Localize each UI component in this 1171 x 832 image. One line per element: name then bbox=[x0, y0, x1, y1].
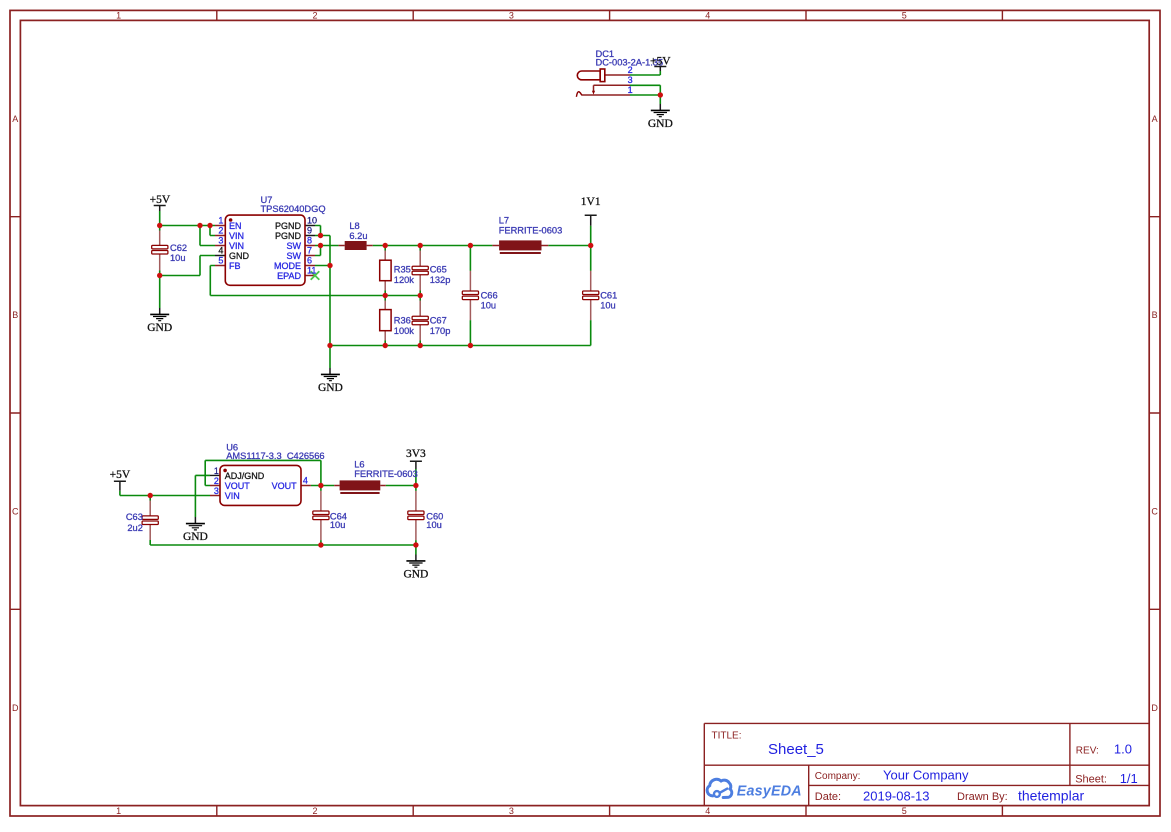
svg-text:A: A bbox=[12, 114, 18, 124]
svg-text:REV:: REV: bbox=[1076, 745, 1099, 756]
svg-text:4: 4 bbox=[705, 11, 710, 21]
svg-text:3: 3 bbox=[509, 806, 514, 816]
svg-text:FB: FB bbox=[229, 261, 241, 271]
svg-text:+5V: +5V bbox=[110, 469, 131, 481]
svg-text:1.0: 1.0 bbox=[1114, 741, 1132, 756]
svg-text:10u: 10u bbox=[481, 301, 497, 311]
svg-text:thetemplar: thetemplar bbox=[1018, 787, 1084, 803]
svg-text:132p: 132p bbox=[430, 275, 451, 285]
svg-text:GND: GND bbox=[648, 118, 673, 130]
svg-text:TPS62040DGQ: TPS62040DGQ bbox=[261, 204, 326, 214]
svg-text:Your Company: Your Company bbox=[883, 767, 969, 782]
svg-text:GND: GND bbox=[403, 568, 428, 580]
svg-text:3V3: 3V3 bbox=[406, 448, 426, 460]
svg-text:1: 1 bbox=[218, 216, 223, 226]
svg-text:C63: C63 bbox=[126, 512, 143, 522]
svg-text:Company:: Company: bbox=[815, 771, 861, 782]
svg-text:5: 5 bbox=[902, 806, 907, 816]
svg-text:PGND: PGND bbox=[275, 231, 302, 241]
svg-text:MODE: MODE bbox=[274, 261, 301, 271]
svg-text:R35: R35 bbox=[394, 265, 411, 275]
svg-text:VOUT: VOUT bbox=[225, 481, 251, 491]
svg-text:L7: L7 bbox=[499, 215, 509, 225]
svg-text:10u: 10u bbox=[330, 520, 346, 530]
svg-text:VIN: VIN bbox=[225, 491, 240, 501]
svg-text:A: A bbox=[1152, 114, 1158, 124]
svg-text:Drawn By:: Drawn By: bbox=[957, 791, 1008, 803]
svg-text:ADJ/GND: ADJ/GND bbox=[225, 471, 265, 481]
svg-text:C65: C65 bbox=[430, 265, 447, 275]
svg-text:C62: C62 bbox=[170, 243, 187, 253]
svg-text:4: 4 bbox=[705, 806, 710, 816]
svg-text:FERRITE-0603: FERRITE-0603 bbox=[354, 469, 418, 479]
svg-text:SW: SW bbox=[287, 251, 302, 261]
svg-text:3: 3 bbox=[509, 11, 514, 21]
svg-text:2: 2 bbox=[312, 11, 317, 21]
svg-text:7: 7 bbox=[307, 246, 312, 256]
svg-text:100k: 100k bbox=[394, 326, 415, 336]
svg-text:2: 2 bbox=[312, 806, 317, 816]
svg-text:C: C bbox=[1151, 507, 1158, 517]
svg-text:VOUT: VOUT bbox=[272, 481, 298, 491]
svg-text:170p: 170p bbox=[430, 326, 451, 336]
svg-text:3: 3 bbox=[628, 75, 633, 85]
svg-text:4: 4 bbox=[218, 246, 223, 256]
svg-text:AMS1117-3.3 C426566: AMS1117-3.3 C426566 bbox=[226, 451, 324, 461]
svg-text:5: 5 bbox=[218, 256, 223, 266]
svg-text:11: 11 bbox=[307, 266, 316, 276]
svg-text:EasyEDA: EasyEDA bbox=[737, 784, 802, 800]
svg-text:GND: GND bbox=[318, 382, 343, 394]
svg-text:TITLE:: TITLE: bbox=[712, 730, 742, 741]
svg-text:3: 3 bbox=[218, 236, 223, 246]
svg-text:VIN: VIN bbox=[229, 241, 244, 251]
svg-text:1V1: 1V1 bbox=[581, 196, 601, 208]
svg-text:Sheet_5: Sheet_5 bbox=[768, 741, 824, 758]
svg-text:9: 9 bbox=[307, 226, 312, 236]
svg-text:2u2: 2u2 bbox=[127, 523, 143, 533]
svg-text:2: 2 bbox=[628, 65, 633, 75]
svg-text:2: 2 bbox=[218, 226, 223, 236]
svg-text:C61: C61 bbox=[600, 290, 617, 300]
svg-text:R36: R36 bbox=[394, 315, 411, 325]
svg-text:VIN: VIN bbox=[229, 231, 244, 241]
svg-text:10u: 10u bbox=[600, 301, 616, 311]
svg-text:Date:: Date: bbox=[815, 791, 841, 803]
svg-text:1/1: 1/1 bbox=[1120, 771, 1138, 786]
svg-text:10u: 10u bbox=[426, 520, 442, 530]
svg-text:1: 1 bbox=[116, 806, 121, 816]
svg-text:+5V: +5V bbox=[650, 56, 671, 68]
svg-text:Sheet:: Sheet: bbox=[1075, 773, 1107, 785]
svg-text:6.2u: 6.2u bbox=[349, 231, 367, 241]
svg-text:D: D bbox=[12, 703, 19, 713]
svg-text:GND: GND bbox=[183, 531, 208, 543]
svg-text:10u: 10u bbox=[170, 253, 186, 263]
svg-text:6: 6 bbox=[307, 256, 312, 266]
svg-text:PGND: PGND bbox=[275, 221, 302, 231]
svg-text:1: 1 bbox=[116, 11, 121, 21]
svg-text:D: D bbox=[1151, 703, 1158, 713]
svg-text:C66: C66 bbox=[481, 290, 498, 300]
svg-text:C67: C67 bbox=[430, 315, 447, 325]
svg-text:+5V: +5V bbox=[150, 194, 171, 206]
svg-text:C: C bbox=[12, 507, 19, 517]
svg-text:4: 4 bbox=[303, 476, 308, 486]
svg-text:L8: L8 bbox=[349, 221, 359, 231]
svg-text:2019-08-13: 2019-08-13 bbox=[863, 788, 930, 803]
svg-text:120k: 120k bbox=[394, 275, 415, 285]
svg-text:EN: EN bbox=[229, 221, 242, 231]
svg-text:2: 2 bbox=[214, 476, 219, 486]
svg-text:SW: SW bbox=[287, 241, 302, 251]
svg-text:5: 5 bbox=[902, 11, 907, 21]
svg-text:1: 1 bbox=[214, 466, 219, 476]
svg-text:1: 1 bbox=[628, 85, 633, 95]
svg-text:FERRITE-0603: FERRITE-0603 bbox=[499, 225, 563, 235]
svg-text:EPAD: EPAD bbox=[277, 271, 301, 281]
svg-text:8: 8 bbox=[307, 236, 312, 246]
svg-text:B: B bbox=[1152, 310, 1158, 320]
svg-text:3: 3 bbox=[214, 486, 219, 496]
svg-text:GND: GND bbox=[229, 251, 250, 261]
svg-text:GND: GND bbox=[147, 322, 172, 334]
svg-text:B: B bbox=[12, 310, 18, 320]
